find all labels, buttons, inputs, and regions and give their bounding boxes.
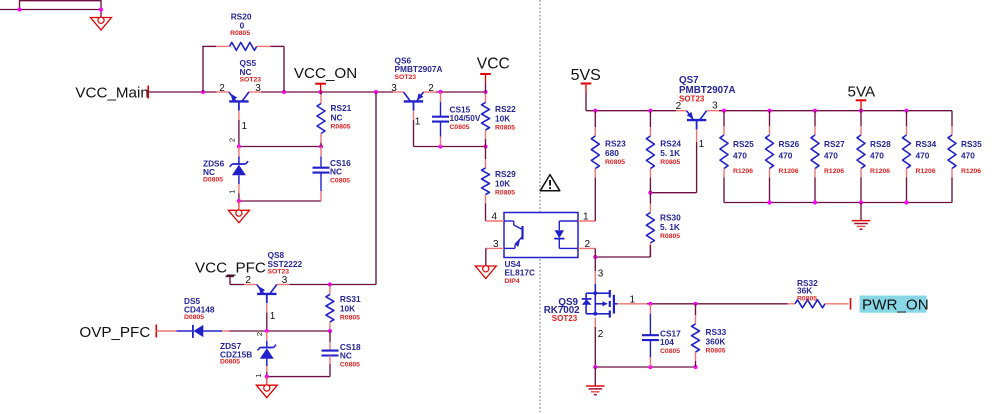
svg-text:R0805: R0805 [230, 30, 250, 37]
wire [267, 376, 330, 378]
svg-text:104: 104 [660, 337, 674, 347]
wire QS8 pin1 [266, 304, 268, 331]
port pin PWR_ON [850, 298, 852, 310]
power symbol 5VA [856, 100, 867, 110]
svg-text:R0805: R0805 [495, 124, 515, 131]
junction [237, 199, 241, 203]
svg-text:RS26: RS26 [779, 139, 800, 149]
resistor RS29 [482, 147, 517, 222]
svg-text:C0805: C0805 [450, 124, 470, 131]
pin stub QS5 pin2 [217, 91, 229, 93]
pin stub QS8 pin2 [244, 284, 256, 286]
junction [693, 365, 697, 369]
junction [722, 109, 726, 113]
wire QS5 pin1 [238, 111, 240, 146]
wire [289, 284, 376, 286]
svg-text:SOT23: SOT23 [552, 314, 578, 323]
pin stub RS20 pin1 [216, 45, 230, 47]
junction [17, 7, 21, 11]
separator dotted line [539, 0, 541, 414]
junction [593, 109, 597, 113]
svg-text:1: 1 [254, 373, 263, 377]
svg-text:470: 470 [733, 151, 747, 161]
svg-text:2: 2 [676, 101, 682, 112]
wire [266, 372, 268, 377]
wire [20, 0, 102, 2]
svg-text:R1206: R1206 [733, 168, 753, 175]
resistor RS34 [903, 111, 937, 203]
junction [648, 191, 652, 195]
zener diode ZDS7 [258, 345, 277, 359]
pin number 2 of ZDS7 [255, 332, 264, 336]
svg-text:10K: 10K [495, 178, 510, 188]
svg-text:R0805: R0805 [797, 296, 817, 303]
wire [148, 91, 216, 93]
svg-text:C0805: C0805 [330, 178, 350, 185]
svg-text:PMBT2907A: PMBT2907A [395, 64, 443, 74]
junction [593, 365, 597, 369]
pin stub QS8 pin3 [277, 284, 290, 286]
pin stub ZDS7 pin2 [266, 331, 268, 341]
pin number 2 of US4 [585, 239, 591, 250]
svg-text:360K: 360K [706, 336, 726, 346]
junction [648, 109, 652, 113]
svg-text:RS28: RS28 [870, 139, 891, 149]
wire [100, 0, 102, 18]
capacitor CS16 [313, 147, 352, 202]
junction [328, 329, 332, 333]
svg-text:3: 3 [282, 275, 288, 286]
capacitor CS15 [432, 92, 481, 147]
svg-text:2: 2 [219, 83, 225, 94]
wire [647, 303, 788, 305]
transistor QS6 [395, 55, 443, 110]
svg-text:2: 2 [227, 138, 236, 142]
net label VCC_PFC [195, 260, 266, 277]
pin number 1 of QS8 [270, 311, 276, 322]
transistor QS7 [679, 75, 736, 129]
pin number 1 of QS5 [242, 121, 248, 132]
pin number 3 of QS6 [391, 83, 397, 94]
net label VCC [477, 55, 510, 72]
svg-text:R0805: R0805 [660, 233, 680, 240]
junction [483, 144, 487, 148]
wire [230, 330, 330, 332]
wire to ground [238, 201, 240, 210]
svg-text:R0805: R0805 [605, 159, 625, 166]
pin number 4 of US4 [492, 212, 498, 223]
junction [904, 200, 908, 204]
svg-text:R0805: R0805 [340, 314, 360, 321]
svg-text:2: 2 [598, 329, 604, 340]
transistor QS9 MOSFET [544, 257, 618, 323]
svg-text:SOT23: SOT23 [395, 74, 417, 81]
wire [202, 45, 216, 47]
wire to ground [266, 377, 268, 386]
wire [283, 46, 285, 92]
junction [282, 90, 286, 94]
pin stub ZDS6 pin1 [238, 184, 240, 194]
junction [813, 200, 817, 204]
svg-text:2: 2 [585, 239, 591, 250]
svg-text:470: 470 [870, 151, 884, 161]
ground [228, 210, 249, 223]
wire [375, 92, 377, 285]
wire QS9 source [594, 318, 596, 367]
junction [859, 200, 863, 204]
svg-text:1: 1 [227, 190, 236, 194]
pin number 3 of QS5 [255, 83, 261, 94]
svg-text:R0805: R0805 [706, 347, 726, 354]
wire ZDS6 bottom lead [238, 175, 240, 184]
wire [19, 0, 21, 10]
label RS20 [230, 12, 252, 37]
junction [438, 90, 442, 94]
pin number 1 of QS9 [630, 294, 636, 305]
svg-text:1: 1 [415, 117, 421, 128]
pin stub QS6 pin2 [424, 91, 437, 93]
svg-text:5VS: 5VS [571, 67, 601, 84]
resistor RS22 [482, 92, 517, 147]
pin stub ZDS7 pin1 [266, 366, 268, 372]
svg-text:R0805: R0805 [495, 189, 515, 196]
wire ZDS7 bottom lead [266, 359, 268, 366]
pin number 2 of ZDS6 [227, 138, 236, 142]
junction [859, 109, 863, 113]
wire [261, 91, 393, 93]
pin number 2 of QS8 [245, 275, 251, 286]
pin stub US4 pin2 [578, 247, 595, 249]
svg-text:VCC_ON: VCC_ON [294, 65, 357, 82]
ground [256, 385, 277, 398]
svg-text:3: 3 [598, 269, 604, 280]
wire ZDS7 top lead [266, 341, 268, 348]
junction [483, 90, 487, 94]
pin stub QS7 pin2 [676, 110, 687, 112]
svg-text:NC: NC [240, 67, 252, 77]
junction [593, 255, 597, 259]
svg-text:NC: NC [340, 351, 352, 361]
svg-text:EL817C: EL817C [505, 267, 535, 277]
wire US4 pin3 to ground [485, 248, 487, 265]
svg-text:DIP4: DIP4 [505, 278, 520, 285]
svg-text:470: 470 [916, 151, 930, 161]
pin stub QS6 pin3 [393, 91, 404, 93]
resistor RS35 [948, 111, 982, 203]
label ZDS7 [220, 341, 252, 366]
ground [586, 386, 605, 395]
pin stub RS20 pin2 [257, 45, 271, 47]
svg-text:4: 4 [492, 212, 498, 223]
svg-text:VCC_Main: VCC_Main [75, 84, 148, 101]
pin stub QS7 pin3 [707, 110, 719, 112]
pin number 3 of QS8 [282, 275, 288, 286]
pin stub QS5 pin3 [249, 91, 261, 93]
wire [0, 9, 101, 11]
svg-text:OVP_PFC: OVP_PFC [79, 324, 150, 341]
junction [648, 302, 652, 306]
svg-text:PWR_ON: PWR_ON [862, 296, 929, 313]
svg-text:R0805: R0805 [660, 159, 680, 166]
svg-text:RS27: RS27 [824, 139, 845, 149]
junction [767, 109, 771, 113]
junction [813, 109, 817, 113]
svg-text:36K: 36K [797, 285, 812, 295]
resistor RS30 [646, 193, 681, 257]
svg-text:R1206: R1206 [916, 168, 936, 175]
ground [91, 17, 112, 30]
svg-text:2: 2 [245, 275, 251, 286]
pin stub US4 pin3 [486, 247, 505, 249]
power symbol 5VS [581, 84, 592, 111]
junction [693, 302, 697, 306]
junction [319, 144, 323, 148]
resistor RS27 [811, 111, 845, 203]
pin stub US4 pin4 [486, 220, 505, 222]
wire [239, 200, 321, 202]
wire [649, 245, 651, 257]
wire [595, 366, 695, 368]
svg-text:3: 3 [493, 239, 499, 250]
svg-text:1: 1 [270, 311, 276, 322]
ground [852, 221, 871, 230]
junction [438, 144, 442, 148]
svg-text:C0805: C0805 [340, 362, 360, 369]
resistor RS26 [766, 111, 800, 203]
zener diode ZDS6 [230, 161, 249, 175]
junction [265, 375, 269, 379]
wire to ground [594, 367, 596, 386]
pin number 1 of ZDS6 [227, 190, 236, 194]
svg-text:10K: 10K [495, 113, 510, 123]
wire [230, 276, 244, 284]
svg-text:470: 470 [779, 151, 793, 161]
wire [239, 146, 321, 148]
transistor QS5 [229, 58, 261, 111]
net label OVP_PFC [79, 324, 150, 341]
capacitor CS18 [322, 331, 362, 377]
pin stub QS9 pin1 [618, 303, 647, 305]
wire [724, 202, 952, 204]
wire [595, 256, 650, 258]
resistor RS25 [720, 111, 754, 203]
junction [648, 365, 652, 369]
svg-text:2: 2 [255, 332, 264, 336]
svg-text:D0805: D0805 [184, 314, 204, 321]
svg-text:SOT23: SOT23 [679, 94, 705, 103]
svg-text:R1206: R1206 [779, 168, 799, 175]
svg-text:5VA: 5VA [848, 84, 876, 101]
svg-text:680: 680 [605, 148, 619, 158]
svg-text:R1206: R1206 [961, 168, 981, 175]
svg-text:R0805: R0805 [331, 123, 351, 130]
junction [201, 90, 205, 94]
pin number 3 of QS7 [712, 101, 718, 112]
svg-text:VCC: VCC [477, 55, 510, 72]
junction [265, 329, 269, 333]
junction [319, 90, 323, 94]
power symbol VCC [480, 74, 491, 92]
svg-text:1: 1 [242, 121, 248, 132]
svg-text:470: 470 [961, 151, 975, 161]
transistor QS8 [257, 250, 303, 303]
junction [237, 144, 241, 148]
resistor RS21 [317, 92, 352, 147]
capacitor CS17 [642, 304, 681, 367]
svg-text:RS35: RS35 [961, 139, 982, 149]
power symbol VCC_ON [315, 84, 326, 92]
svg-text:1: 1 [583, 212, 589, 223]
diode DS5 [156, 296, 229, 338]
net label VCC_ON [294, 65, 357, 82]
pin number 1 of QS7 [699, 139, 705, 150]
resistor RS33 [692, 304, 727, 367]
junction [374, 90, 378, 94]
warning symbol [540, 175, 560, 191]
svg-text:R1206: R1206 [824, 168, 844, 175]
wire [719, 110, 952, 112]
svg-text:R1206: R1206 [870, 168, 890, 175]
wire QS7 pin1 [650, 130, 696, 193]
svg-text:D0805: D0805 [203, 177, 223, 184]
pin number 2 of QS6 [428, 83, 434, 94]
junction [99, 7, 103, 11]
port pin VCC_Main [147, 86, 149, 99]
pin number 2 of QS5 [219, 83, 225, 94]
wire QS6 pin1 [413, 111, 415, 146]
svg-text:5. 1K: 5. 1K [660, 148, 680, 158]
svg-text:RS25: RS25 [733, 139, 754, 149]
wire [202, 46, 204, 92]
pin number 2 of QS7 [676, 101, 682, 112]
pin number 1 of QS6 [415, 117, 421, 128]
svg-text:2: 2 [428, 83, 434, 94]
wire to ground [860, 203, 862, 221]
ground [475, 266, 496, 279]
svg-text:RS34: RS34 [916, 139, 937, 149]
svg-text:104/50V: 104/50V [450, 113, 481, 123]
wire ZDS6 top lead [238, 157, 240, 165]
pin stub ZDS6 pin2 [238, 147, 240, 157]
wire RS23 to US4 pin1 [594, 220, 596, 222]
svg-text:470: 470 [824, 151, 838, 161]
resistor RS23 [591, 111, 626, 221]
wire US4 pin2 down [594, 248, 596, 257]
op-amp US4 optocoupler [504, 213, 578, 286]
junction [328, 282, 332, 286]
resistor RS28 [857, 111, 891, 203]
pin number 2 of QS9 [598, 329, 604, 340]
pin number 1 of ZDS7 [254, 373, 263, 377]
svg-text:D0805: D0805 [220, 359, 240, 366]
svg-text:1: 1 [699, 139, 705, 150]
wire [586, 110, 676, 112]
svg-text:3: 3 [255, 83, 261, 94]
svg-text:SST2222: SST2222 [268, 259, 303, 269]
svg-text:3: 3 [712, 101, 718, 112]
net label VCC_Main [75, 84, 148, 101]
port pin VCC_PFC [226, 275, 235, 277]
pin number 1 of US4 [583, 212, 589, 223]
port pin OVP_PFC [155, 325, 157, 338]
net label 5VS [571, 67, 601, 84]
pin number 3 of US4 [493, 239, 499, 250]
label ZDS6 [203, 159, 225, 184]
svg-text:NC: NC [203, 167, 215, 177]
svg-text:5. 1K: 5. 1K [660, 222, 680, 232]
pin number 3 of QS9 [598, 269, 604, 280]
svg-text:C0805: C0805 [660, 348, 680, 355]
svg-text:NC: NC [331, 112, 343, 122]
resistor RS20 body [230, 42, 257, 50]
resistor RS32 [788, 278, 849, 308]
pin stub US4 pin1 [578, 220, 595, 222]
net label 5VA [848, 84, 876, 101]
resistor RS24 [646, 111, 681, 193]
wire [238, 194, 240, 202]
wire [436, 91, 486, 93]
svg-text:10K: 10K [340, 303, 355, 313]
wire [271, 45, 285, 47]
svg-text:NC: NC [330, 167, 342, 177]
svg-text:3: 3 [391, 83, 397, 94]
svg-text:VCC_PFC: VCC_PFC [195, 260, 266, 277]
wire [414, 146, 486, 148]
junction [767, 200, 771, 204]
junction [904, 109, 908, 113]
resistor RS31 [326, 285, 361, 332]
net label PWR_ON [860, 296, 929, 314]
